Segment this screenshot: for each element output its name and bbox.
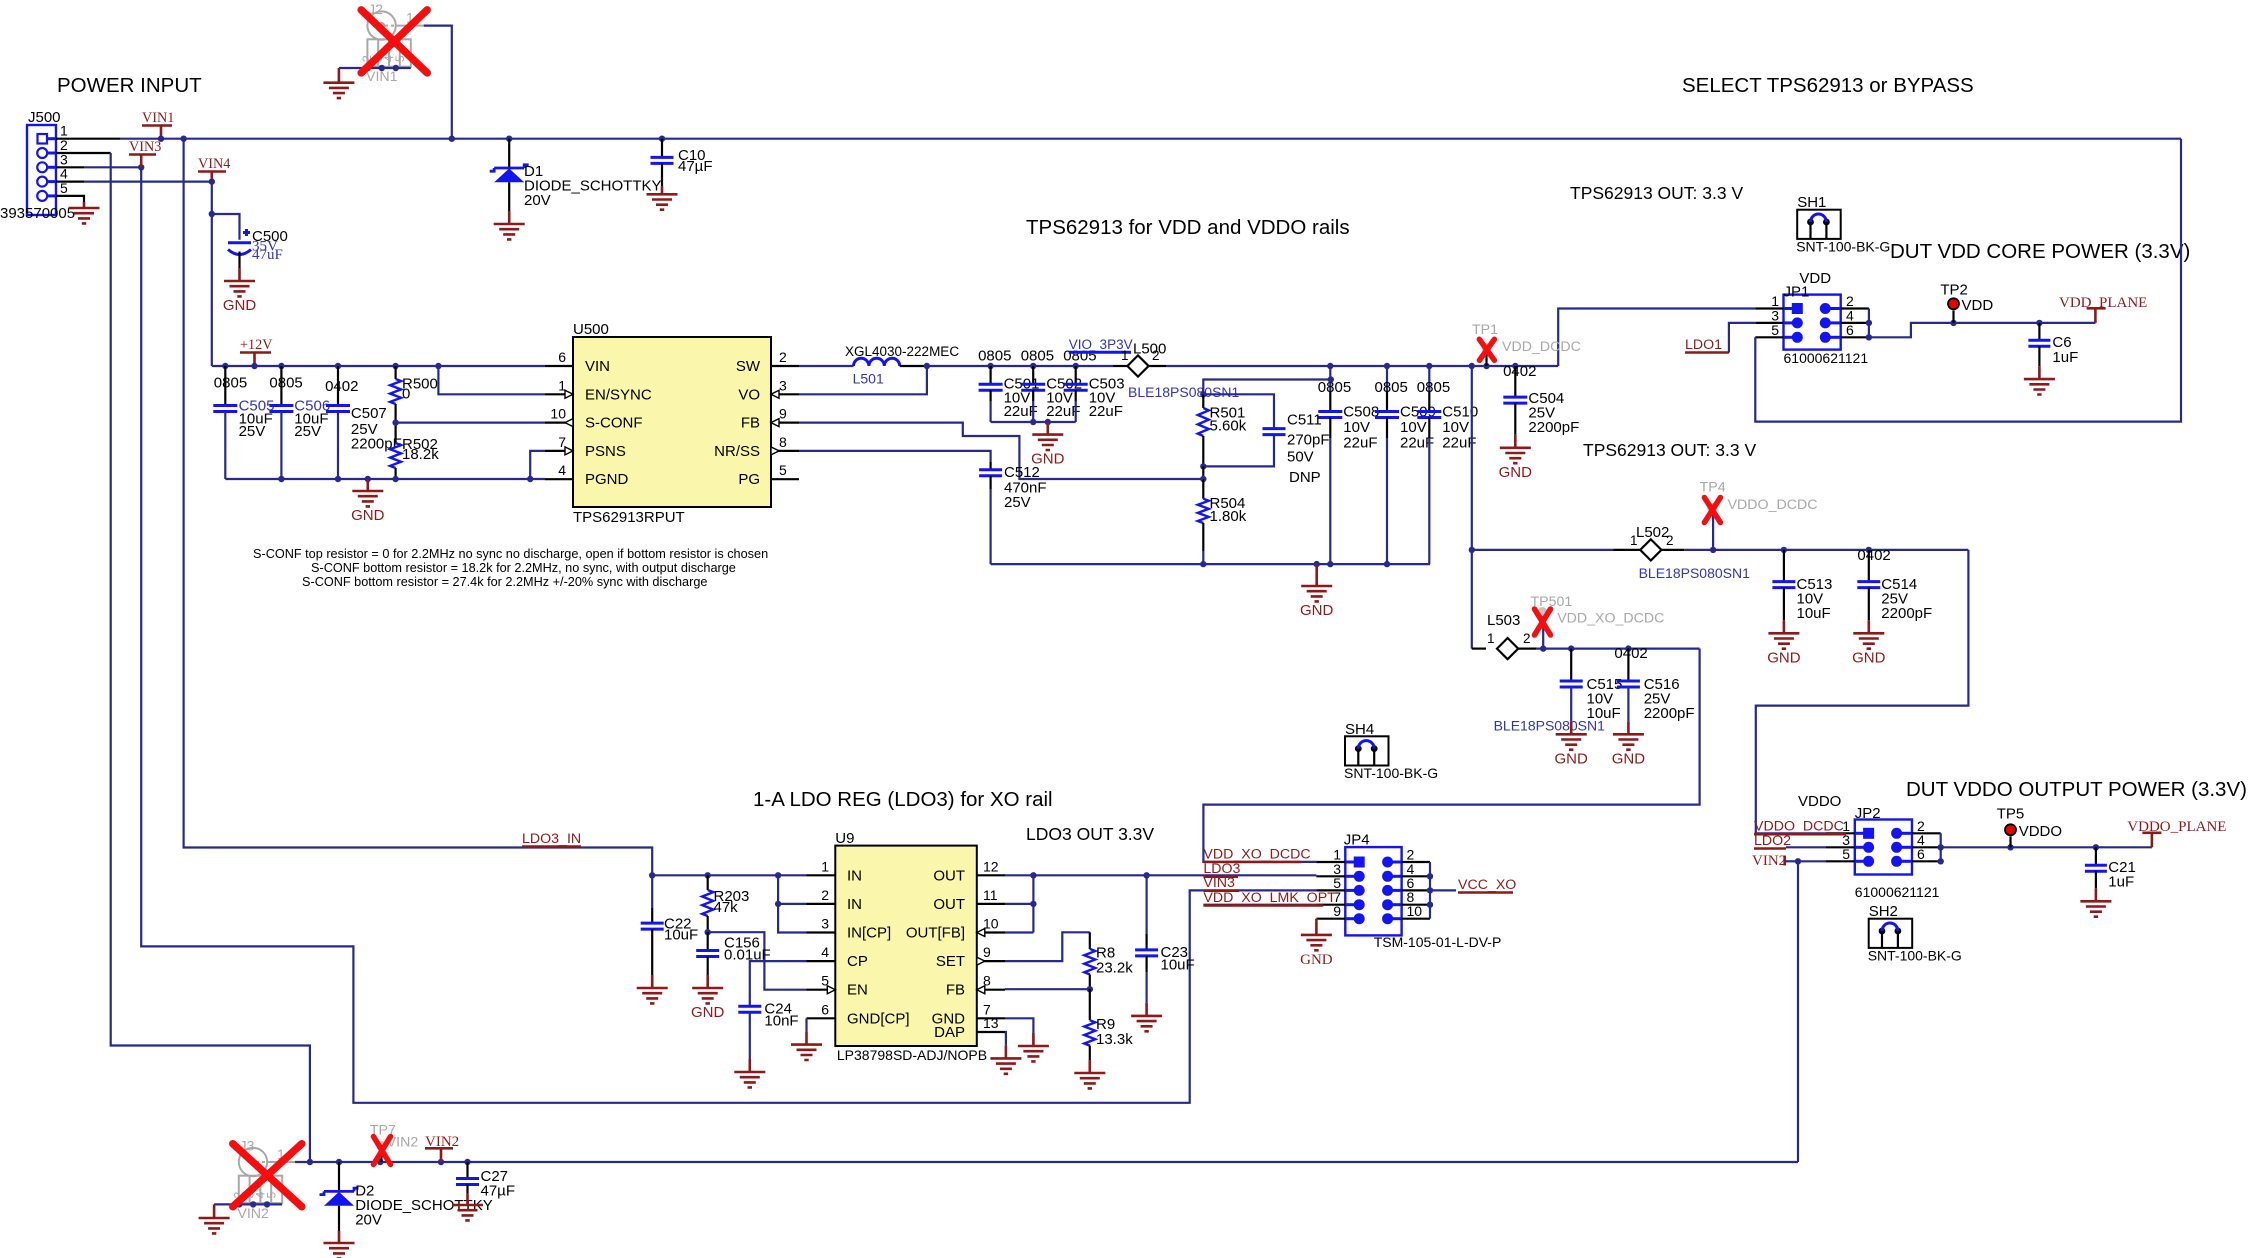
- wire R203 bottom to CP/EN: [705, 929, 807, 990]
- wire bus down to ferrite rails: [1469, 366, 1475, 649]
- wire JP1 out to VDD_PLANE: [1869, 320, 2095, 338]
- svg-text:U9: U9: [835, 830, 854, 847]
- svg-text:BLE18PS080SN1: BLE18PS080SN1: [1128, 384, 1240, 400]
- svg-text:10: 10: [550, 406, 566, 422]
- svg-text:+12V: +12V: [240, 337, 273, 353]
- svg-text:TPS62913 for VDD and VDDO rail: TPS62913 for VDD and VDDO rails: [1026, 216, 1350, 239]
- svg-text:0402: 0402: [325, 378, 358, 395]
- wire L501 out to L500: [924, 363, 1113, 369]
- wire EN/SYNC branch: [438, 366, 545, 394]
- svg-text:SH1: SH1: [1797, 194, 1826, 211]
- ground at C156: [691, 975, 725, 1021]
- ground at C515: [1555, 721, 1589, 767]
- wire JP4 pin9 to gnd: [1315, 919, 1318, 922]
- svg-text:JP1: JP1: [1784, 284, 1810, 301]
- diode D2 DIODE_SCHOTTKY 20V: [320, 1183, 493, 1232]
- svg-text:GND: GND: [351, 507, 385, 524]
- svg-text:LDO1: LDO1: [1685, 337, 1722, 353]
- wire JP2 even pins tie: [1938, 833, 1944, 864]
- svg-text:VIN1: VIN1: [142, 110, 174, 126]
- svg-text:FB: FB: [741, 415, 760, 432]
- title SELECT TPS62913 or BYPASS: [1682, 74, 1974, 97]
- svg-text:VDD_XO_DCDC: VDD_XO_DCDC: [1557, 610, 1664, 626]
- svg-text:0805: 0805: [214, 374, 247, 391]
- resistor R8 23.2k: [1084, 945, 1133, 990]
- ground at C22: [637, 975, 668, 1003]
- svg-text:47µF: 47µF: [678, 158, 713, 175]
- wire JP1 pin5 bypass loop: [1755, 139, 2181, 422]
- test point TP1 (VDD_DCDC): [1472, 322, 1581, 366]
- svg-text:OUT: OUT: [933, 867, 965, 884]
- ground at C500: [223, 268, 257, 314]
- svg-text:47µF: 47µF: [481, 1183, 516, 1200]
- svg-text:22uF: 22uF: [1089, 403, 1123, 420]
- svg-text:LDO3 OUT 3.3V: LDO3 OUT 3.3V: [1026, 824, 1154, 844]
- svg-text:DNP: DNP: [1289, 469, 1321, 486]
- wire VIN2 drop to rail: [1795, 858, 1826, 1162]
- title TPS62913 OUT 3.3V (upper): [1570, 183, 1743, 203]
- svg-text:GND: GND: [691, 1004, 725, 1021]
- svg-text:0402: 0402: [1614, 645, 1647, 662]
- wire U9 IN2/IN3 tie: [775, 875, 807, 932]
- net label VDD_XO_DCDC: [1203, 847, 1310, 863]
- jumper shunt SH4 SNT-100-BK-G: [1344, 721, 1438, 781]
- wire VDDO out: [1941, 844, 2152, 850]
- wire S-CONF node: [392, 419, 545, 425]
- jumper shunt SH1 SNT-100-BK-G: [1796, 194, 1890, 254]
- svg-text:IN: IN: [847, 896, 862, 913]
- svg-text:5: 5: [779, 462, 787, 478]
- net label LDO1: [1685, 323, 1755, 353]
- capacitor C22 10uF: [641, 875, 699, 975]
- title LDO3 OUT 3.3V: [1026, 824, 1154, 844]
- capacitor C510 22uF 10V: [1417, 366, 1478, 564]
- IC U500 TPS62913RPUT: [545, 321, 799, 526]
- ground at C514: [1852, 620, 1886, 666]
- svg-text:POWER INPUT: POWER INPUT: [57, 74, 202, 97]
- svg-text:23.2k: 23.2k: [1096, 960, 1133, 977]
- ground at C10: [647, 186, 678, 210]
- svg-text:VDDO: VDDO: [1798, 793, 1841, 810]
- J500 pin1 stub: [56, 138, 120, 140]
- svg-text:50V: 50V: [1287, 448, 1314, 465]
- svg-text:1-A LDO REG (LDO3) for XO rai: 1-A LDO REG (LDO3) for XO rail: [753, 788, 1053, 811]
- wire JP4 even pins tie: [1427, 862, 1433, 919]
- capacitor C156 0.01uF: [696, 932, 771, 975]
- resistor R501 5.60k: [1198, 394, 1247, 466]
- svg-text:1: 1: [1121, 348, 1129, 363]
- note S-CONF text: [253, 547, 768, 589]
- test point TP7 (VIN2): [370, 1123, 418, 1163]
- svg-text:4: 4: [821, 944, 829, 960]
- ground at U9 pin7: [1018, 1033, 1049, 1061]
- svg-text:LDO3_IN: LDO3_IN: [522, 831, 581, 847]
- net label VDD_XO_LMK_OPT: [1203, 890, 1336, 906]
- svg-text:47uF: 47uF: [252, 247, 283, 263]
- ground at C27: [452, 1193, 483, 1220]
- svg-text:6: 6: [1846, 322, 1854, 338]
- svg-text:9: 9: [983, 944, 991, 960]
- svg-text:TPS62913RPUT: TPS62913RPUT: [573, 509, 685, 526]
- wire U9 GND pin7: [1005, 1018, 1033, 1033]
- svg-text:25V: 25V: [1004, 494, 1031, 511]
- test point TP2 VDD: [1940, 281, 1993, 323]
- svg-text:TP2: TP2: [1940, 281, 1968, 298]
- wire VIN1 net down to LDO3_IN: [184, 139, 653, 876]
- net label VIO_3P3V: [1069, 337, 1133, 352]
- svg-text:J500: J500: [28, 109, 61, 126]
- wire FB from U500: [799, 423, 1203, 479]
- svg-text:TP5: TP5: [1997, 806, 2025, 823]
- svg-text:TP1: TP1: [1472, 322, 1498, 338]
- capacitor C512 470nF 25V: [979, 464, 1046, 564]
- net label VCC_XO: [1458, 877, 1516, 893]
- svg-text:GND: GND: [1300, 952, 1333, 968]
- ground at J500 pin5: [69, 202, 100, 223]
- wire bus up to JP1 pin1: [1558, 309, 1755, 367]
- test point TP501 (VDD_XO_DCDC): [1531, 594, 1665, 649]
- svg-text:10uF: 10uF: [1587, 705, 1621, 722]
- svg-text:0: 0: [402, 386, 410, 403]
- svg-text:5: 5: [265, 1192, 279, 1199]
- svg-text:VDDO_DCDC: VDDO_DCDC: [1728, 497, 1818, 513]
- wire NR/SS from U500: [799, 451, 991, 470]
- wire PSNS jog: [530, 451, 545, 479]
- J500 pin4 stub: [56, 181, 212, 183]
- svg-text:25V: 25V: [294, 423, 321, 440]
- red X over TP4: [1704, 498, 1720, 523]
- svg-text:FB: FB: [946, 982, 965, 999]
- svg-text:CP: CP: [847, 953, 868, 970]
- resistor R504 1.80k: [1198, 479, 1247, 564]
- wire +12V rail: [212, 363, 545, 369]
- svg-text:5.60k: 5.60k: [1210, 418, 1247, 435]
- wire D2 lead: [338, 1162, 340, 1191]
- wire U9 IN rail: [649, 872, 807, 878]
- net label LDO3: [1203, 861, 1240, 877]
- svg-text:GND: GND: [1300, 602, 1334, 619]
- wire VIN2 net down from J500 pin2: [111, 153, 310, 1162]
- svg-text:VDD_DCDC: VDD_DCDC: [1502, 339, 1581, 355]
- wire VDD_XO_DCDC to JP4: [1203, 649, 1699, 862]
- wire C501-C503 gnd rail: [991, 419, 1076, 425]
- svg-text:11: 11: [983, 887, 998, 903]
- red X over TP7: [374, 1137, 391, 1165]
- capacitor C509 22uF 10V: [1375, 366, 1436, 564]
- red X over J2: [361, 10, 427, 73]
- net label VDDO_DCDC: [1754, 819, 1846, 835]
- svg-text:61000621121: 61000621121: [1855, 884, 1940, 900]
- svg-text:VDD: VDD: [1962, 297, 1994, 314]
- wire VIN2 rail: [295, 1159, 1798, 1165]
- ferrite bead L502 BLE18PS080SN1: [1472, 524, 1750, 581]
- svg-text:XGL4030-222MEC: XGL4030-222MEC: [845, 344, 959, 359]
- svg-text:VO: VO: [738, 386, 760, 403]
- ground at C24: [734, 1059, 765, 1087]
- svg-text:JP2: JP2: [1855, 805, 1881, 822]
- wire R501 top to C508 branch: [1200, 376, 1334, 397]
- svg-text:U500: U500: [573, 321, 609, 338]
- net label VIN3 at JP4: [1203, 875, 1239, 891]
- svg-text:2: 2: [779, 349, 787, 365]
- svg-text:2200pF: 2200pF: [1881, 605, 1932, 622]
- red X over J3: [233, 1144, 302, 1207]
- svg-text:OUT: OUT: [933, 896, 965, 913]
- svg-text:2200pF: 2200pF: [1644, 705, 1695, 722]
- net label LDO2: [1754, 833, 1826, 849]
- svg-text:6: 6: [821, 1001, 829, 1017]
- capacitor C503 22uF 10V: [1063, 347, 1124, 422]
- svg-text:PGND: PGND: [585, 471, 629, 488]
- net label VIN4: [198, 156, 230, 182]
- title DUT VDDO OUTPUT POWER: [1906, 778, 2247, 801]
- svg-text:PG: PG: [738, 471, 760, 488]
- ground at C516: [1612, 721, 1646, 767]
- svg-text:1: 1: [1487, 631, 1495, 646]
- ground at C513: [1767, 620, 1801, 666]
- capacitor C516 2200pF 25V: [1614, 645, 1694, 722]
- ground at D1: [494, 211, 525, 239]
- connector J3 (not fitted): [232, 1139, 296, 1222]
- capacitor C21 1uF: [2085, 847, 2136, 890]
- svg-text:GND: GND: [1555, 750, 1589, 767]
- IC U9 LP38798SD-ADJ/NOPB: [807, 830, 1006, 1063]
- capacitor C500 47uF 35V (polarized): [228, 228, 288, 268]
- ground at U9 GND[CP]: [791, 1032, 822, 1060]
- svg-text:0402: 0402: [1857, 547, 1890, 564]
- wire SET to R8: [1005, 932, 1090, 961]
- test point TP4 (VDDO_DCDC): [1700, 479, 1818, 550]
- wire VIN1 top bus: [120, 136, 2181, 142]
- capacitor C515 10uF 10V: [1560, 649, 1623, 722]
- svg-text:3: 3: [821, 916, 829, 932]
- wire J3 pins 2-5 to ground: [214, 1201, 282, 1207]
- resistor R500 0: [390, 366, 438, 423]
- wire VDDO_DCDC to JP2: [1756, 550, 1969, 833]
- capacitor C506 10uF 25V: [269, 366, 330, 479]
- svg-text:GND: GND: [1499, 464, 1533, 481]
- svg-text:393570005: 393570005: [0, 205, 75, 222]
- svg-text:VCC_XO: VCC_XO: [1458, 877, 1516, 893]
- wire C511 parallel loop: [1200, 394, 1274, 469]
- wire CP to C24: [750, 961, 807, 1006]
- net label +12V: [240, 337, 273, 366]
- ground at D2: [324, 1231, 355, 1258]
- capacitor C508 22uF 10V: [1318, 366, 1379, 564]
- svg-text:0805: 0805: [978, 347, 1011, 364]
- red X over TP1: [1479, 339, 1494, 360]
- svg-text:TSM-105-01-L-DV-P: TSM-105-01-L-DV-P: [1374, 934, 1502, 950]
- svg-text:DAP: DAP: [934, 1024, 965, 1041]
- net label VIN2 at rail: [425, 1134, 459, 1162]
- title VDDO: [1798, 793, 1841, 810]
- title DUT VDD CORE POWER: [1890, 240, 2190, 263]
- svg-text:VIN3: VIN3: [129, 139, 161, 155]
- svg-text:2: 2: [821, 887, 829, 903]
- ground at J2: [323, 68, 354, 98]
- svg-text:GND: GND: [1767, 649, 1801, 666]
- net label VIN1: [142, 110, 174, 139]
- svg-text:IN[CP]: IN[CP]: [847, 925, 891, 942]
- svg-text:BLE18PS080SN1: BLE18PS080SN1: [1639, 565, 1751, 581]
- svg-text:SH4: SH4: [1345, 721, 1374, 738]
- svg-text:L502: L502: [1636, 524, 1669, 541]
- ground at C21: [2080, 888, 2111, 916]
- svg-text:270pF: 270pF: [1287, 432, 1330, 449]
- test point TP5 VDDO: [1997, 806, 2062, 848]
- connector J2 (not fitted): [360, 2, 424, 85]
- title TPS62913 OUT 3.3V (lower): [1583, 440, 1756, 460]
- resistor R9 13.3k: [1084, 989, 1133, 1060]
- svg-text:S-CONF top resistor = 0 for 2.: S-CONF top resistor = 0 for 2.2MHz no sy…: [253, 547, 768, 561]
- capacitor C502 22uF 10V: [1021, 347, 1082, 422]
- capacitor C10 47uF: [651, 147, 713, 186]
- svg-text:TP4: TP4: [1700, 479, 1726, 495]
- svg-text:6: 6: [558, 349, 566, 365]
- wire L502 out rail: [1684, 547, 1968, 553]
- svg-text:IN: IN: [847, 867, 862, 884]
- svg-text:20V: 20V: [355, 1212, 382, 1229]
- net label VDD_PLANE: [2059, 295, 2147, 323]
- svg-text:C508: C508: [1343, 403, 1379, 420]
- svg-text:VIN: VIN: [585, 358, 610, 375]
- capacitor C507 2200pF 25V: [325, 366, 402, 479]
- capacitor C513 10uF 10V: [1772, 550, 1832, 622]
- svg-text:0805: 0805: [1375, 379, 1408, 396]
- svg-text:10: 10: [1407, 903, 1423, 919]
- connector JP2 61000621121: [1826, 805, 1941, 900]
- svg-text:S-CONF bottom resistor = 27.4k: S-CONF bottom resistor = 27.4k for 2.2MH…: [302, 575, 707, 589]
- wire U9 DAP pin13: [1004, 1032, 1007, 1045]
- svg-text:NR/SS: NR/SS: [714, 443, 760, 460]
- connector JP1 61000621121: [1755, 270, 1869, 366]
- svg-text:VIN3: VIN3: [1203, 875, 1235, 891]
- capacitor C27 47uF: [456, 1162, 515, 1200]
- svg-text:GND: GND: [1852, 649, 1886, 666]
- svg-text:10uF: 10uF: [664, 927, 698, 944]
- net label LDO3_IN: [522, 831, 581, 847]
- resistor R502 18.2k: [390, 423, 439, 479]
- resistor R203 47k: [702, 875, 749, 932]
- capacitor C24 10nF: [738, 1001, 798, 1060]
- ground at output rail: [1300, 564, 1334, 619]
- svg-text:S-CONF bottom resistor = 18.2k: S-CONF bottom resistor = 18.2k for 2.2MH…: [311, 561, 736, 575]
- svg-text:VDDO_PLANE: VDDO_PLANE: [2127, 819, 2226, 835]
- svg-text:VIN2: VIN2: [237, 1206, 269, 1222]
- svg-text:10nF: 10nF: [764, 1013, 798, 1030]
- svg-text:3: 3: [779, 377, 787, 393]
- net label VIN2 at JP2: [1752, 853, 1798, 869]
- wire C10 lead: [661, 139, 663, 158]
- svg-text:13.3k: 13.3k: [1096, 1031, 1133, 1048]
- wire VIN4 down to +12V rail: [209, 178, 215, 366]
- capacitor C505 10uF 25V: [213, 366, 274, 479]
- J500 pin5 stub: [56, 196, 84, 202]
- svg-text:47k: 47k: [714, 899, 739, 916]
- capacitor C23 10uF: [1135, 875, 1195, 1003]
- svg-text:VIN2: VIN2: [1752, 853, 1786, 869]
- svg-text:1uF: 1uF: [2108, 874, 2134, 891]
- ground at JP4 pin9: [1300, 922, 1333, 968]
- svg-text:GND: GND: [223, 297, 257, 314]
- svg-text:22uF: 22uF: [1343, 434, 1377, 451]
- svg-text:GND[CP]: GND[CP]: [847, 1010, 910, 1027]
- wire D1 lead: [508, 139, 510, 168]
- inductor L501 XGL4030-222MEC: [845, 344, 959, 387]
- svg-text:0402: 0402: [1503, 363, 1536, 380]
- J500 pin2 stub: [56, 152, 111, 154]
- jumper shunt SH2 SNT-100-BK-G: [1868, 903, 1962, 963]
- svg-text:SNT-100-BK-G: SNT-100-BK-G: [1868, 947, 1962, 963]
- net label VDDO_PLANE: [2127, 819, 2226, 847]
- connector J500 393570005: [0, 109, 75, 222]
- svg-text:2200pF: 2200pF: [1528, 419, 1579, 436]
- wire JP1 pins 2-4-6 tie: [1866, 309, 1872, 341]
- svg-text:25V: 25V: [239, 423, 266, 440]
- ground at input rail: [351, 479, 385, 524]
- wire SW to L501: [799, 365, 854, 367]
- svg-text:LP38798SD-ADJ/NOPB: LP38798SD-ADJ/NOPB: [837, 1047, 987, 1063]
- svg-text:L500: L500: [1133, 341, 1166, 358]
- wire L503 out rail: [1536, 645, 1700, 651]
- svg-text:2: 2: [1523, 631, 1531, 646]
- svg-text:C507: C507: [351, 405, 387, 422]
- wire FB node: [1200, 466, 1206, 482]
- ground at R9: [1074, 1060, 1105, 1088]
- svg-text:VDDO: VDDO: [2019, 823, 2062, 840]
- svg-text:GND: GND: [1612, 750, 1646, 767]
- svg-text:VIN1: VIN1: [366, 69, 398, 85]
- J500 pin3 stub: [56, 164, 144, 170]
- svg-text:L503: L503: [1487, 612, 1520, 629]
- svg-text:0805: 0805: [1417, 379, 1450, 396]
- svg-text:C511: C511: [1287, 412, 1322, 429]
- title 1-A LDO REG: [753, 788, 1053, 811]
- wire GND[CP] down: [805, 1018, 807, 1031]
- svg-text:5: 5: [1771, 322, 1779, 338]
- ground at U9 DAP: [990, 1045, 1021, 1073]
- diode D1 DIODE_SCHOTTKY 20V: [490, 163, 662, 211]
- wire J2 pins 2-5 to ground: [339, 65, 411, 71]
- svg-text:L501: L501: [853, 371, 884, 387]
- svg-text:0805: 0805: [269, 374, 302, 391]
- wire FB to divider: [1005, 986, 1093, 992]
- svg-text:9: 9: [779, 406, 787, 422]
- svg-text:61000621121: 61000621121: [1784, 350, 1869, 366]
- svg-text:DUT VDDO OUTPUT POWER (3.3V): DUT VDDO OUTPUT POWER (3.3V): [1906, 778, 2247, 801]
- svg-text:0805: 0805: [1021, 347, 1054, 364]
- capacitor C501 22uF 10V: [978, 347, 1039, 422]
- svg-text:S-CONF: S-CONF: [585, 415, 643, 432]
- ferrite bead L500 BLE18PS080SN1: [1113, 341, 1240, 401]
- svg-text:C512: C512: [1004, 464, 1040, 481]
- svg-text:SELECT TPS62913 or BYPASS: SELECT TPS62913 or BYPASS: [1682, 74, 1974, 97]
- svg-text:12: 12: [983, 858, 999, 874]
- red X over TP501: [1535, 609, 1551, 635]
- svg-text:1: 1: [821, 858, 829, 874]
- ground at J3: [199, 1204, 230, 1233]
- svg-text:EN: EN: [847, 982, 868, 999]
- svg-text:0805: 0805: [1318, 379, 1351, 396]
- svg-text:SNT-100-BK-G: SNT-100-BK-G: [1344, 765, 1438, 781]
- wire VIN3 net down-across: [141, 167, 1316, 1103]
- capacitor C6 1uF: [2028, 323, 2078, 366]
- svg-text:SW: SW: [736, 358, 761, 375]
- svg-text:VDD_XO_DCDC: VDD_XO_DCDC: [1203, 847, 1310, 863]
- svg-text:PSNS: PSNS: [585, 443, 626, 460]
- title POWER INPUT: [57, 74, 202, 97]
- capacitor C511 270pF 50V DNP: [1263, 412, 1330, 487]
